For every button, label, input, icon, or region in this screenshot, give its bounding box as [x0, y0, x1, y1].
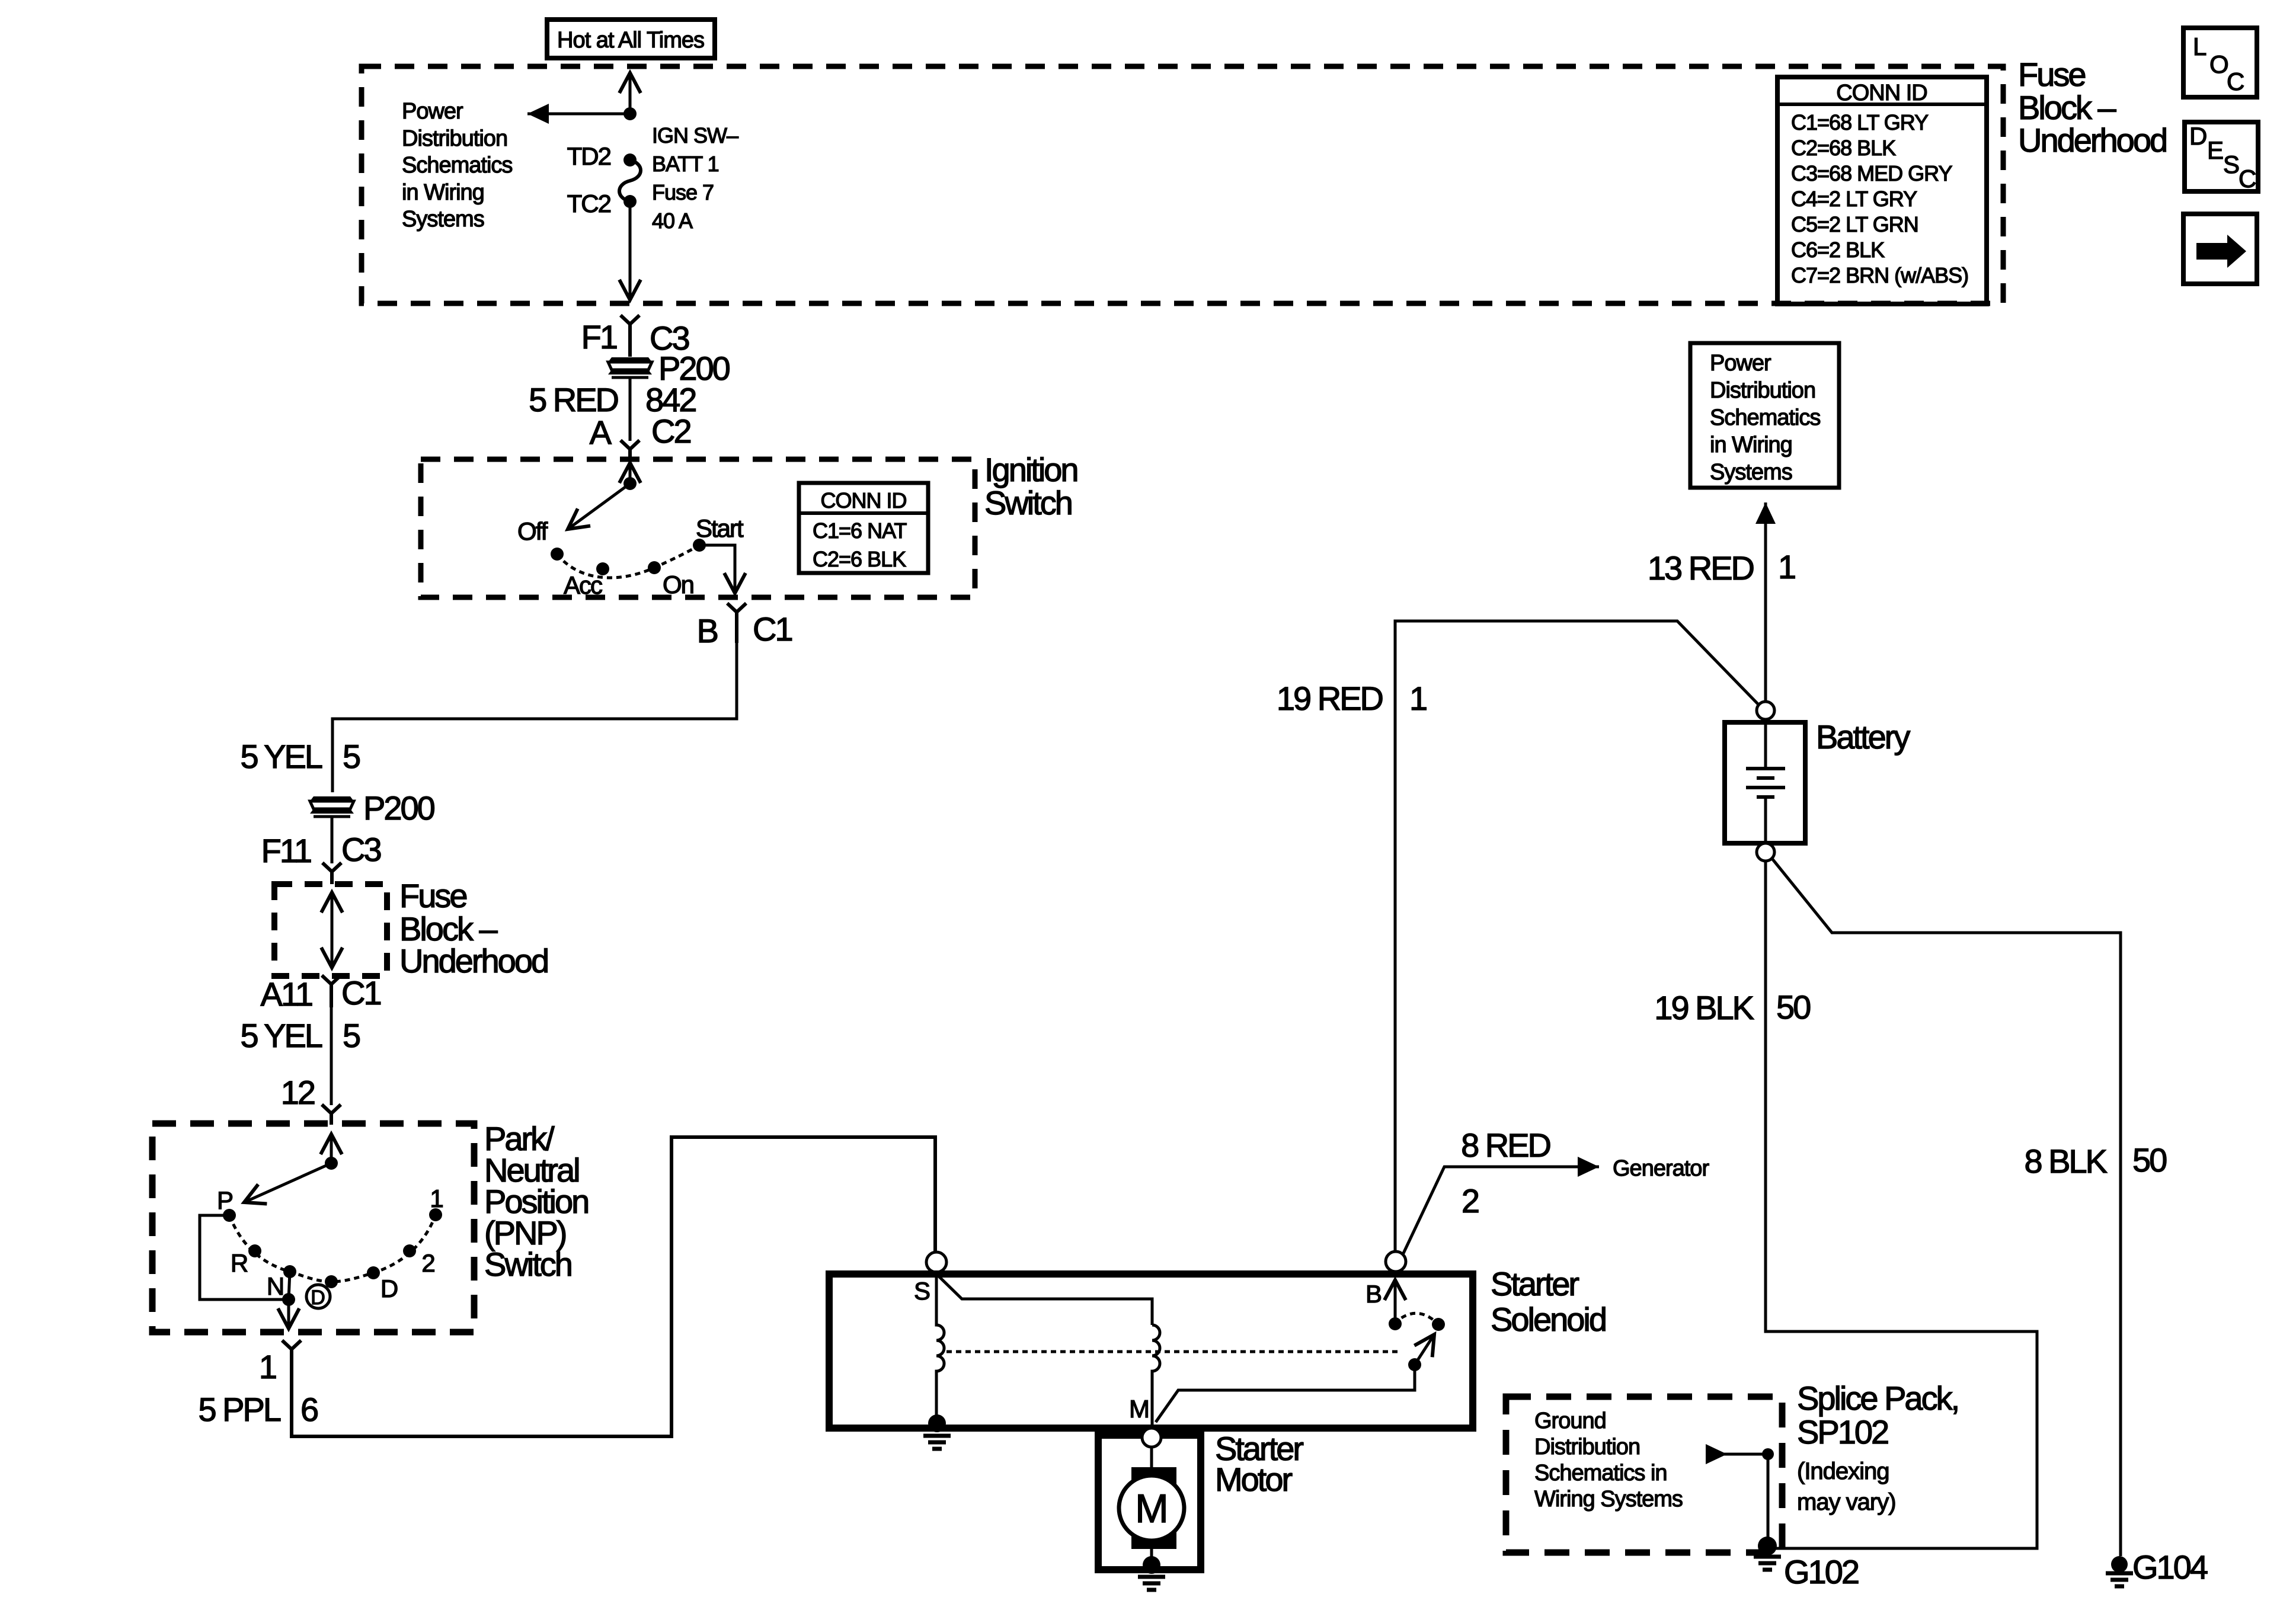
component label Splice Pack SP102 — [1797, 1379, 1958, 1515]
ground (solenoid case) — [923, 1436, 951, 1449]
label R — [231, 1249, 248, 1277]
wire N contact down — [289, 1272, 290, 1299]
svg-text:Underhood: Underhood — [399, 942, 548, 980]
terminal TD2 label — [567, 142, 611, 170]
svg-text:5 RED: 5 RED — [529, 381, 618, 418]
label box Hot at All Times — [547, 20, 715, 58]
svg-text:40 A: 40 A — [652, 209, 693, 233]
svg-text:TC2: TC2 — [567, 190, 611, 217]
wire battery to power distribution (up arrow) — [1764, 502, 1767, 702]
connector fork below PNP switch — [282, 1340, 301, 1363]
label B — [1366, 1280, 1381, 1308]
svg-text:IGN SW–: IGN SW– — [652, 123, 738, 148]
svg-text:CONN ID: CONN ID — [821, 488, 907, 513]
svg-text:50: 50 — [1776, 988, 1810, 1026]
svg-text:Solenoid: Solenoid — [1491, 1301, 1606, 1338]
svg-text:Fuse 7: Fuse 7 — [652, 180, 714, 204]
node PNP wiper pivot — [325, 1157, 338, 1170]
battery Battery box — [1725, 722, 1805, 843]
svg-text:N: N — [267, 1272, 283, 1300]
svg-text:Schematics: Schematics — [402, 153, 512, 178]
svg-text:C2=6 BLK: C2=6 BLK — [813, 547, 906, 571]
contact Acc — [596, 562, 609, 575]
wire P contact to N output — [200, 1215, 289, 1299]
svg-text:Wiring Systems: Wiring Systems — [1534, 1487, 1683, 1512]
ground (G104) — [2106, 1573, 2133, 1586]
svg-text:8 BLK: 8 BLK — [2024, 1142, 2107, 1180]
svg-text:On: On — [663, 571, 693, 598]
svg-text:Motor: Motor — [1215, 1461, 1292, 1498]
wire 19 RED battery to solenoid B — [1395, 621, 1759, 1251]
svg-text:in Wiring: in Wiring — [402, 180, 484, 205]
svg-text:Splice Pack,: Splice Pack, — [1797, 1379, 1958, 1417]
wire label 19 BLK / 50 — [1654, 988, 1810, 1026]
starter solenoid box — [829, 1274, 1473, 1428]
ignition switch wiper arrow — [568, 484, 630, 529]
svg-text:Generator: Generator — [1613, 1156, 1709, 1181]
fusible element up-arrow — [331, 892, 334, 930]
wire Start contact to C1 down-arrow — [699, 545, 735, 593]
ground distribution dashed box — [1506, 1397, 1782, 1553]
label Generator — [1613, 1156, 1709, 1181]
terminal S ring — [926, 1252, 946, 1272]
solenoid plunger arm arrow — [1415, 1334, 1434, 1365]
svg-text:C: C — [2227, 68, 2244, 95]
fuse block underhood dashed box — [362, 66, 2003, 303]
svg-text:Hot at All Times: Hot at All Times — [557, 28, 704, 53]
wire M terminal to motor — [1150, 1447, 1153, 1471]
node TC2 — [623, 195, 637, 208]
node TD2 — [623, 153, 637, 167]
label D — [380, 1275, 398, 1302]
node N output junction — [282, 1293, 295, 1306]
ground label G104 — [2132, 1548, 2208, 1586]
fusible element down-arrow — [331, 930, 334, 968]
hold-in winding coil — [936, 1272, 944, 1419]
wire label 5 YEL / 5 (lower) — [240, 1017, 360, 1054]
solenoid contact arc — [1394, 1313, 1438, 1324]
battery cell symbol — [1746, 719, 1785, 844]
svg-text:2: 2 — [1462, 1182, 1479, 1219]
wire fuse output down-arrow — [629, 201, 632, 300]
splice node SP102 — [1758, 1537, 1777, 1555]
svg-text:Off: Off — [517, 517, 548, 545]
svg-text:C1: C1 — [341, 974, 380, 1012]
PNP arc — [229, 1215, 436, 1282]
pin 12 label — [281, 1074, 315, 1111]
svg-text:G102: G102 — [1784, 1553, 1859, 1590]
label P — [217, 1186, 232, 1214]
label 1 — [430, 1185, 443, 1212]
label M — [1129, 1395, 1149, 1423]
battery positive ring — [1757, 702, 1774, 719]
park neutral position switch dashed box — [152, 1124, 474, 1332]
svg-text:Switch: Switch — [484, 1246, 571, 1283]
wire label 13 RED / 1 — [1648, 548, 1795, 587]
svg-text:G104: G104 — [2132, 1548, 2208, 1586]
wire label 5 YEL / 5 (upper) — [240, 738, 360, 775]
svg-text:50: 50 — [2132, 1141, 2166, 1179]
pin F11 label — [261, 831, 381, 869]
label Acc — [564, 571, 602, 599]
svg-text:A: A — [590, 414, 612, 451]
note Power Distribution Schematics in Wiring Systems — [402, 99, 512, 232]
motor M symbol — [1119, 1467, 1184, 1549]
contact D — [367, 1266, 380, 1279]
svg-text:5: 5 — [343, 738, 360, 775]
icon next-page arrow — [2183, 214, 2257, 284]
svg-text:Acc: Acc — [564, 571, 602, 599]
ground label G102 — [1784, 1553, 1859, 1590]
svg-text:Start: Start — [696, 514, 744, 542]
svg-text:1: 1 — [259, 1348, 276, 1385]
svg-text:BATT 1: BATT 1 — [652, 152, 719, 176]
svg-text:Ignition: Ignition — [984, 451, 1077, 488]
svg-text:Switch: Switch — [984, 484, 1072, 521]
svg-text:in Wiring: in Wiring — [1710, 433, 1792, 457]
wire label 5 PPL / 6 — [198, 1391, 318, 1428]
pin B label — [697, 610, 792, 649]
contact 2 — [403, 1244, 416, 1257]
svg-text:F1: F1 — [581, 318, 617, 356]
svg-text:B: B — [697, 612, 718, 649]
pin A11 label — [261, 974, 381, 1013]
wire M to solenoid contact — [1156, 1365, 1415, 1422]
svg-text:2: 2 — [421, 1249, 434, 1277]
svg-text:Distribution: Distribution — [1534, 1435, 1640, 1459]
icon DESC — [2185, 122, 2258, 193]
svg-text:C3=68 MED GRY: C3=68 MED GRY — [1791, 161, 1952, 185]
label Start — [696, 514, 744, 542]
svg-text:Fuse: Fuse — [399, 877, 466, 914]
svg-text:Fuse: Fuse — [2018, 56, 2085, 93]
svg-text:Block –: Block – — [2018, 89, 2116, 126]
svg-text:Schematics in: Schematics in — [1534, 1461, 1667, 1486]
wire ground distribution arrow — [1706, 1453, 1768, 1456]
svg-text:TD2: TD2 — [567, 142, 611, 170]
component label Starter Solenoid — [1491, 1265, 1606, 1338]
solenoid dashed link — [946, 1350, 1402, 1353]
label S — [914, 1277, 930, 1305]
note Ground Distribution Schematics in Wiring Systems — [1534, 1409, 1683, 1512]
svg-text:C7=2 BRN (w/ABS): C7=2 BRN (w/ABS) — [1791, 263, 1968, 287]
wire S to pull-in winding — [938, 1275, 1152, 1325]
svg-text:R: R — [231, 1249, 248, 1277]
solenoid case ground node — [928, 1414, 946, 1432]
contact N — [283, 1265, 296, 1278]
svg-text:12: 12 — [281, 1074, 315, 1111]
label 2 — [421, 1249, 434, 1277]
svg-text:S: S — [914, 1277, 930, 1305]
ignition switch arc — [557, 545, 699, 578]
svg-text:1: 1 — [430, 1185, 443, 1212]
wire P200 to ignition switch — [629, 377, 632, 441]
fuse IGN SW-BATT 1 Fuse 7 40A (symbol) — [619, 160, 641, 201]
svg-text:D: D — [2189, 122, 2207, 150]
wire PNP feed up-arrow — [330, 1134, 333, 1163]
conn id table (ignition switch) — [799, 483, 928, 573]
pin F1 label — [581, 318, 617, 356]
contact D (arc) — [325, 1275, 338, 1288]
note box Power Distribution Schematics in Wiring Systems (right) — [1690, 343, 1839, 488]
wire 8 RED solenoid B to generator — [1403, 1167, 1599, 1254]
svg-text:C2: C2 — [651, 412, 690, 450]
motor ground node — [1143, 1556, 1160, 1574]
contact Start — [693, 539, 706, 552]
terminal TC2 label — [567, 190, 611, 217]
svg-text:8 RED: 8 RED — [1461, 1126, 1550, 1164]
wire 8 BLK battery to G104 — [1772, 859, 2121, 1556]
node ground distribution junction — [1762, 1448, 1774, 1460]
svg-text:L: L — [2193, 33, 2206, 60]
contact Off — [551, 548, 564, 561]
component label Fuse Block - Underhood (right) — [2018, 56, 2166, 159]
svg-text:SP102: SP102 — [1797, 1413, 1888, 1451]
svg-text:Systems: Systems — [1710, 460, 1792, 485]
connector C3 label — [650, 319, 689, 357]
connector C2 fork at ignition switch — [621, 440, 639, 461]
svg-text:Systems: Systems — [402, 207, 484, 232]
label N — [267, 1272, 283, 1300]
wire motor to ground — [1150, 1549, 1153, 1560]
svg-text:Power: Power — [1710, 351, 1771, 376]
starter motor box — [1098, 1435, 1201, 1570]
wire label 8 BLK / 50 — [2024, 1141, 2166, 1180]
grommet P200 (lower) — [310, 789, 434, 827]
ground node G104 — [2111, 1556, 2128, 1573]
svg-text:Ground: Ground — [1534, 1409, 1606, 1433]
wire PNP to starter solenoid S — [292, 1137, 935, 1436]
wire label 19 RED / 1 — [1277, 680, 1427, 717]
wire ignition switch B to PNP feed — [332, 643, 737, 792]
svg-text:P200: P200 — [363, 789, 434, 827]
svg-text:5 YEL: 5 YEL — [240, 738, 322, 775]
svg-text:5: 5 — [343, 1017, 360, 1054]
label On — [663, 571, 693, 598]
wire B terminal arrow — [1394, 1280, 1397, 1324]
svg-text:C1: C1 — [753, 610, 792, 648]
component label Fuse Block - Underhood (small) — [399, 877, 548, 980]
component label Battery — [1816, 718, 1910, 756]
wire to power distribution (left arrow) — [527, 113, 630, 116]
svg-text:C1=68 LT GRY: C1=68 LT GRY — [1791, 110, 1929, 135]
solenoid plunger contact — [1408, 1358, 1421, 1371]
connector C3 fork at underhood fuse block — [322, 863, 341, 884]
svg-text:P: P — [217, 1186, 232, 1214]
svg-text:19 BLK: 19 BLK — [1654, 989, 1754, 1026]
svg-text:E: E — [2207, 136, 2223, 164]
contact On — [648, 561, 661, 574]
svg-text:D: D — [311, 1286, 325, 1309]
wire A11 to PNP switch — [330, 1007, 333, 1105]
wire PNP output down-arrow — [287, 1299, 290, 1329]
terminal B ring — [1386, 1251, 1406, 1272]
node ignition wiper pivot — [623, 477, 637, 490]
grommet P200 (upper) — [608, 350, 730, 387]
component label Park/Neutral Position (PNP) Switch — [484, 1120, 588, 1283]
pull-in winding coil — [1152, 1325, 1160, 1425]
component label Starter Motor — [1215, 1430, 1303, 1498]
svg-text:F11: F11 — [261, 832, 311, 869]
solenoid contact (battery side) — [1389, 1317, 1402, 1330]
svg-text:Power: Power — [402, 99, 463, 124]
wire label 5 RED / 842 — [529, 381, 696, 418]
svg-text:D: D — [380, 1275, 398, 1302]
svg-text:Battery: Battery — [1816, 718, 1910, 756]
solenoid contact (motor side) — [1432, 1318, 1445, 1331]
wire ignition feed up-arrow — [629, 463, 632, 484]
battery negative ring — [1757, 843, 1774, 861]
conn id table (fuse block underhood) — [1777, 77, 1987, 304]
fuse value label IGN SW- BATT 1 Fuse 7 40 A — [652, 123, 738, 233]
svg-text:C3: C3 — [341, 831, 380, 868]
PNP wiper arrow — [244, 1163, 331, 1202]
svg-text:A11: A11 — [261, 975, 312, 1013]
node junction at fuse feed — [623, 107, 637, 120]
ground (G102) — [1754, 1557, 1781, 1570]
wire P200 to fuse block — [331, 817, 334, 863]
svg-text:5 PPL: 5 PPL — [198, 1391, 280, 1428]
svg-text:B: B — [1366, 1280, 1381, 1308]
svg-text:O: O — [2209, 50, 2228, 78]
svg-text:13 RED: 13 RED — [1648, 549, 1754, 587]
svg-text:Starter: Starter — [1491, 1265, 1579, 1302]
svg-text:5 YEL: 5 YEL — [240, 1017, 322, 1054]
svg-text:C6=2 BLK: C6=2 BLK — [1791, 238, 1885, 262]
svg-text:C5=2 LT GRN: C5=2 LT GRN — [1791, 212, 1918, 236]
connector C1 fork below ignition switch — [727, 603, 746, 643]
svg-text:C1=6 NAT: C1=6 NAT — [813, 518, 907, 543]
svg-text:Distribution: Distribution — [402, 126, 507, 151]
svg-text:C: C — [2239, 165, 2256, 193]
svg-text:CONN ID: CONN ID — [1836, 81, 1927, 105]
svg-text:Schematics: Schematics — [1710, 405, 1820, 430]
connector C1 fork below small fuse block — [322, 975, 341, 1007]
wire 19 BLK battery to splice pack — [1766, 861, 2037, 1548]
contact R — [248, 1244, 261, 1257]
svg-text:may vary): may vary) — [1797, 1489, 1896, 1515]
contact 1 — [429, 1208, 442, 1221]
ignition switch dashed box — [421, 459, 975, 597]
pin A label — [590, 412, 691, 451]
svg-text:1: 1 — [1409, 680, 1427, 717]
ground (starter motor) — [1138, 1577, 1165, 1590]
svg-text:Underhood: Underhood — [2018, 121, 2166, 159]
icon LOC — [2183, 28, 2257, 97]
fuse block underhood small dashed box — [274, 884, 387, 976]
terminal M ring — [1142, 1428, 1161, 1447]
connector C3 fork at fuse block — [621, 315, 639, 357]
label Off — [517, 517, 548, 545]
svg-text:1: 1 — [1778, 548, 1795, 585]
svg-text:C2=68 BLK: C2=68 BLK — [1791, 136, 1896, 160]
component label Ignition Switch — [984, 451, 1077, 521]
connector fork at PNP switch — [322, 1105, 341, 1125]
svg-text:19 RED: 19 RED — [1277, 680, 1383, 717]
svg-text:6: 6 — [300, 1391, 318, 1428]
wire label 8 RED / 2 — [1461, 1126, 1550, 1219]
wire ign sw batt feed up-arrow — [629, 73, 632, 114]
contact P — [223, 1209, 236, 1222]
svg-text:(Indexing: (Indexing — [1797, 1458, 1889, 1484]
pin 1 label — [259, 1348, 276, 1385]
svg-text:M: M — [1129, 1395, 1149, 1423]
circled D contact — [306, 1285, 330, 1309]
svg-text:S: S — [2223, 151, 2239, 178]
svg-text:Distribution: Distribution — [1710, 378, 1815, 403]
svg-text:C4=2 LT GRY: C4=2 LT GRY — [1791, 187, 1917, 211]
wire junction to splice pack — [1767, 1454, 1770, 1541]
svg-text:M: M — [1135, 1486, 1168, 1531]
